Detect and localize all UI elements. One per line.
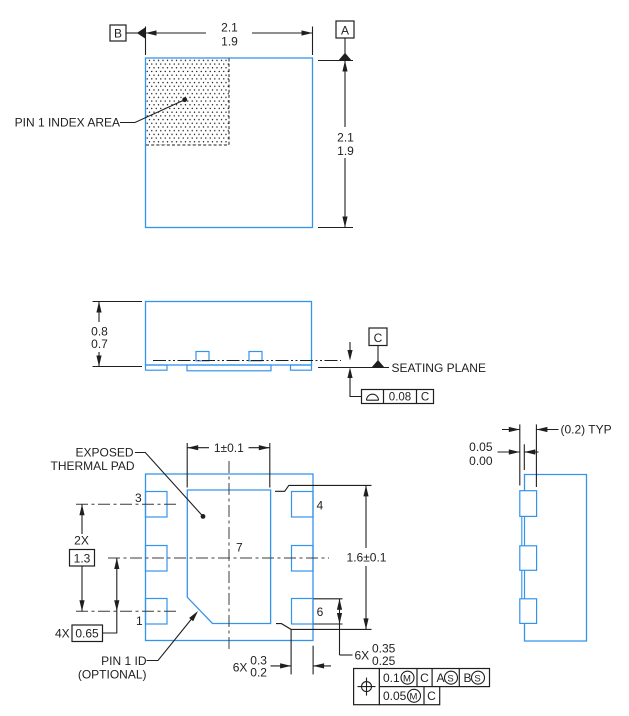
inner pin profile right (side view) [249,352,262,361]
row 2: 0.05 (M) C [423,687,425,705]
leader to pin 1 index area [120,100,185,123]
svg-text:2X: 2X [74,534,89,548]
svg-text:0.2: 0.2 [250,665,267,679]
seating plane gap arrow lower with leader [347,368,352,379]
boxed basic dimension 1.3 [70,550,95,567]
datum B symbol [110,25,126,41]
pin 6 (right bottom) [292,599,314,625]
dimension line 1±0.1 [187,447,209,449]
pin 3 (left top) [146,492,168,518]
svg-text:M: M [403,673,411,684]
seating plane gap arrow upper [349,342,351,353]
svg-text:2.1: 2.1 [337,131,354,145]
svg-text:3: 3 [135,491,142,505]
svg-text:0.08: 0.08 [389,392,411,404]
svg-text:0.1: 0.1 [383,671,400,685]
svg-text:1: 1 [136,614,143,628]
phantom line (dash-dot-dot) through side view [153,360,341,362]
dimension 1.6±0.1 jogged extension bottom [276,624,372,630]
svg-text:A: A [437,671,445,685]
thermal pad (side view) [187,365,271,371]
svg-text:A: A [341,24,349,38]
svg-text:B: B [114,27,122,41]
extension line pin inner edge [535,424,537,487]
row 1 centerline [76,610,176,612]
dimension 0.05/0.00 [498,451,520,453]
pin 1 index area dotted fill [146,59,229,146]
row 1: 0.1 (M) C A(S) B(S) [416,669,418,687]
dimension 1±0.1 extension lines [186,443,188,488]
right dimension bottom extension line [318,227,353,229]
inner pin profile left (side view) [196,352,209,361]
svg-text:0.05: 0.05 [383,689,407,703]
svg-text:C: C [421,392,429,404]
pin 5 (side view) [520,546,537,571]
dimension (0.2) TYP [502,429,520,431]
svg-text:(OPTIONAL): (OPTIONAL) [78,668,147,682]
seating plane line [318,367,389,369]
dimension 2X 1.3 line [81,504,83,534]
top dimension line 2.1/1.9 [146,32,207,34]
right dimension top extension line [318,60,353,62]
exposed thermal pad outline with pin1 chamfer [187,490,270,624]
top dimension extension line left [145,27,147,56]
pin 6 (side view) [520,599,537,624]
package body outline (right side view) [525,475,587,642]
feature control frame 0.08 C [362,390,434,404]
svg-text:0.05: 0.05 [469,440,493,454]
svg-text:6: 6 [317,605,324,619]
side height dimension extension line bottom [93,366,143,368]
svg-text:PIN 1 ID: PIN 1 ID [101,654,147,668]
svg-text:THERMAL PAD: THERMAL PAD [50,459,134,473]
svg-text:0.7: 0.7 [91,337,108,351]
svg-text:1.6±0.1: 1.6±0.1 [347,551,387,565]
svg-text:6X: 6X [233,661,248,675]
svg-text:0.00: 0.00 [469,454,493,468]
datum C symbol [369,328,387,346]
pin side recess lines [521,516,523,545]
svg-text:C: C [420,671,429,685]
svg-text:S: S [474,673,480,684]
body edge segments between pins [524,516,526,545]
svg-text:1.9: 1.9 [221,35,238,49]
FEATURE CONTROL FRAME position 0.1 M C A B [379,669,489,687]
pin 4 (side view) [520,491,537,517]
svg-text:S: S [447,673,453,684]
svg-text:7: 7 [236,541,243,555]
pin 5 (right middle) [292,546,314,572]
package body outline (top view) [146,58,313,228]
svg-text:SEATING PLANE: SEATING PLANE [392,361,486,375]
svg-text:4: 4 [316,499,323,513]
dimension 1.6±0.1 jogged extension top [275,485,372,491]
svg-text:M: M [410,691,418,702]
boxed basic dimension 0.65 [72,625,103,642]
package body outline (bottom view) [146,474,314,641]
pin 2 (left middle) [146,546,168,572]
svg-text:B: B [464,671,472,685]
right dimension line 2.1/1.9 [344,61,346,128]
extension line pin outer face [519,424,521,485]
svg-text:PIN 1 INDEX AREA: PIN 1 INDEX AREA [15,116,120,130]
side height dimension line 0.8/0.7 [98,302,100,323]
pin 4 (right top) [292,492,314,518]
side height dimension extension line top [93,301,143,303]
svg-text:(0.2) TYP: (0.2) TYP [561,423,612,437]
svg-text:4X: 4X [55,627,70,641]
position symbol cell [354,669,380,705]
top dimension extension line right [312,27,314,56]
leader to pin 1 chamfer [147,619,192,661]
dimension 4X 0.65 line [116,558,118,611]
package body outline (side view) [146,302,312,366]
row 3 centerline [76,503,176,505]
extension line body face [523,444,525,470]
datum A symbol [336,21,354,38]
pin 1 (left bottom) [146,599,168,625]
dimension line 1.6±0.1 [365,485,367,548]
dimension 6X 0.35/0.25 extension lines [314,598,343,600]
horizontal centerline (bottom view) [108,557,329,559]
pin 1 index area dashed bottom border [146,144,229,146]
dimension 6X 0.35/0.25 line and leader [339,599,341,655]
dimension 6X 0.3/0.2 arrows [271,665,292,667]
pin 1 index area dashed right border [228,59,230,146]
svg-text:1.9: 1.9 [337,144,354,158]
dimension 6X 0.3/0.2 extension lines [312,646,314,675]
svg-text:EXPOSED: EXPOSED [75,446,133,460]
svg-text:C: C [427,689,436,703]
svg-text:1±0.1: 1±0.1 [214,441,244,455]
svg-text:1.3: 1.3 [74,552,91,566]
svg-text:0.65: 0.65 [75,627,99,641]
svg-text:6X: 6X [355,649,370,663]
left terminal pad (side view) [146,365,168,370]
svg-text:0.25: 0.25 [372,654,396,668]
leader to thermal pad [135,453,203,517]
svg-text:2.1: 2.1 [221,21,238,35]
vertical centerline (bottom view) [228,461,230,651]
svg-text:C: C [374,331,383,345]
right terminal pad (side view) [291,365,312,370]
jog from pin6 bottom corner to 0.3 extension [290,629,292,674]
